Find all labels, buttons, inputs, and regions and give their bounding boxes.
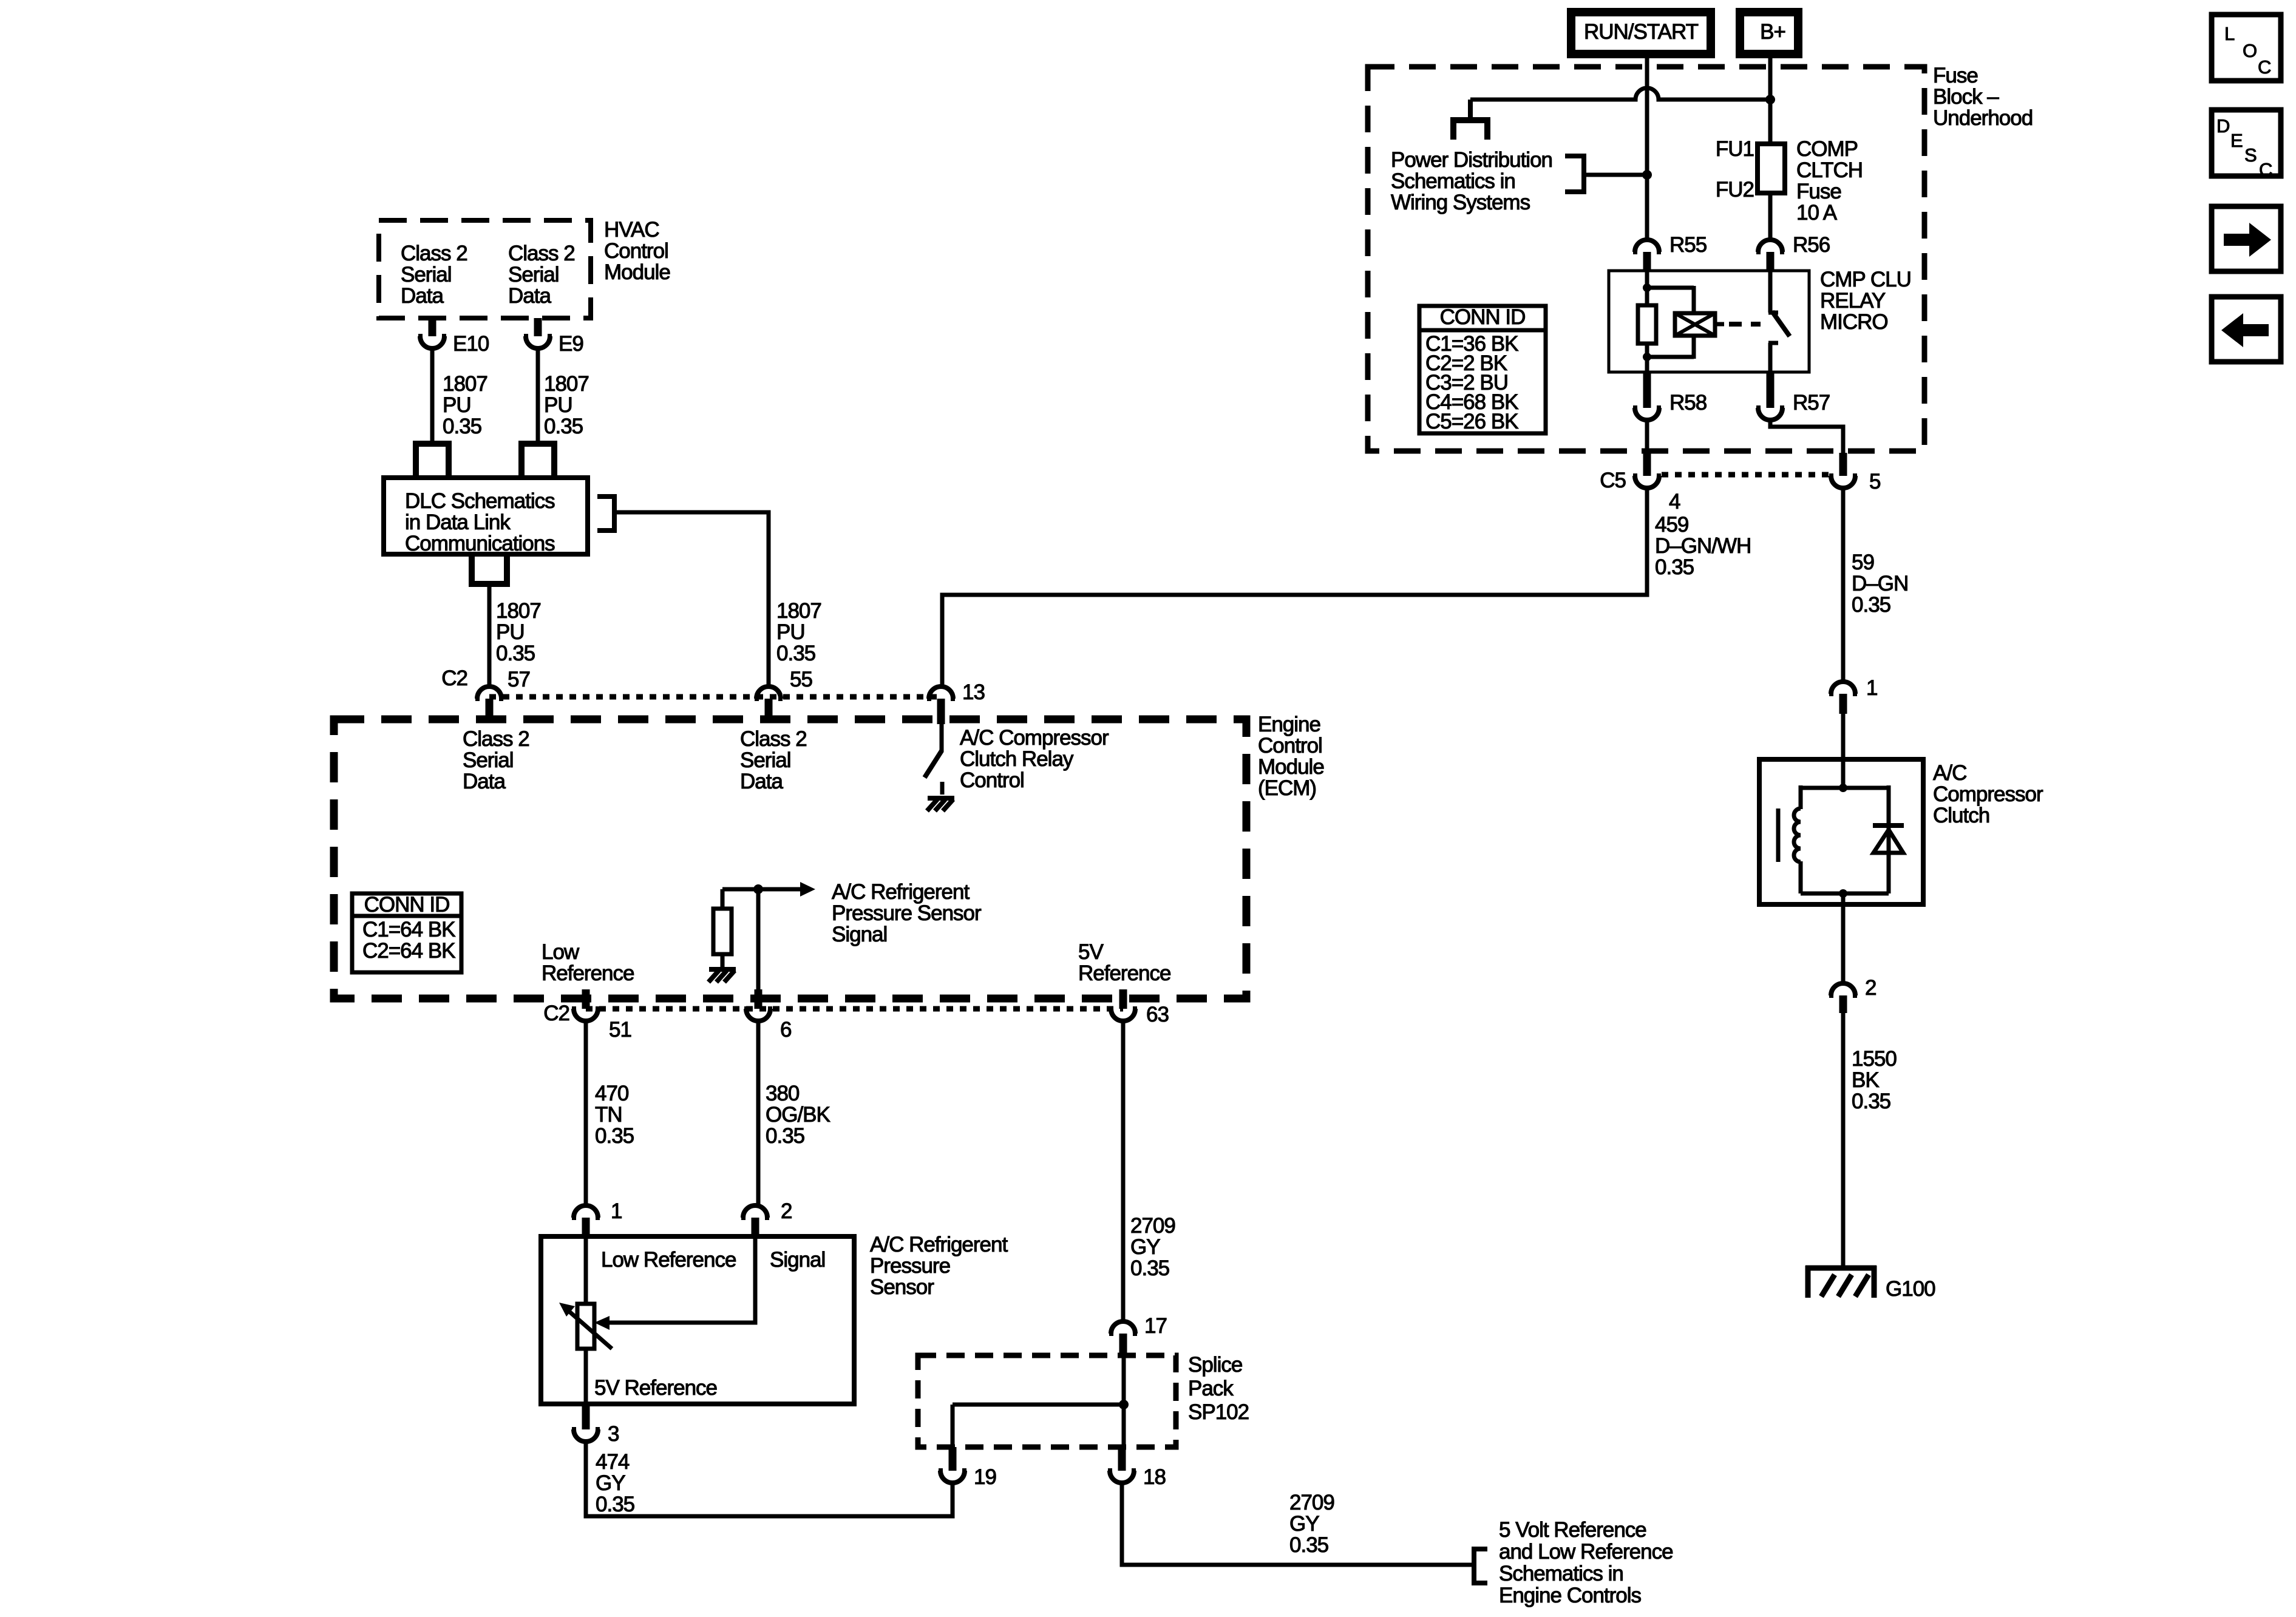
svg-text:Control: Control (1258, 734, 1322, 758)
junction dot at B+ wire (1765, 95, 1775, 104)
label Class 2 Serial Data (pin 55) (740, 727, 807, 793)
svg-text:380: 380 (766, 1082, 800, 1105)
svg-text:Data: Data (463, 770, 506, 793)
A/C compressor clutch box (1759, 759, 1923, 904)
svg-text:Control: Control (960, 768, 1024, 792)
label pin 13 (962, 680, 985, 704)
svg-text:FU2: FU2 (1716, 178, 1754, 202)
ECM pullup resistor (713, 889, 732, 969)
svg-text:CONN ID: CONN ID (364, 893, 450, 917)
legend box back-arrow (2212, 297, 2281, 362)
wire pin 1 to clutch box (1841, 714, 1846, 788)
label 459 D-GN/WH 0.35 (1655, 513, 1751, 579)
svg-text:2709: 2709 (1130, 1214, 1175, 1238)
svg-text:Class 2: Class 2 (740, 727, 807, 751)
svg-text:Pack: Pack (1188, 1377, 1234, 1400)
svg-text:Control: Control (604, 239, 668, 263)
wire pin 6 inside ECM (756, 889, 761, 1009)
connector pin 63 (1109, 989, 1137, 1021)
wire 474 GY (586, 1442, 953, 1516)
sensor signal wire (594, 1236, 755, 1330)
label A/C Refrigerent Pressure Sensor (870, 1233, 1008, 1299)
label FU1 (1716, 137, 1754, 161)
label Signal (sensor) (770, 1248, 825, 1272)
svg-text:Pressure Sensor: Pressure Sensor (832, 901, 982, 925)
svg-text:Engine: Engine (1258, 713, 1320, 736)
label CONN ID (fuse block) (1419, 305, 1546, 433)
legend box DESC (2212, 110, 2281, 180)
svg-text:0.35: 0.35 (1289, 1533, 1328, 1557)
svg-text:R56: R56 (1793, 233, 1830, 257)
svg-text:TN: TN (595, 1103, 622, 1127)
connector R57 (1756, 372, 1830, 420)
label 5 Volt Reference and Low Reference Schematics in Engine Controls (1499, 1518, 1673, 1607)
splice pack dashed box (918, 1355, 1176, 1447)
relay switch (1768, 271, 1790, 372)
label C2 (lower row) (543, 1002, 569, 1025)
DLC Schematics box (384, 478, 588, 554)
svg-text:3: 3 (608, 1422, 619, 1446)
connector sensor pin 2 (741, 1199, 792, 1236)
ECM driver switch (925, 724, 942, 778)
wire 470 TN (584, 1021, 588, 1205)
svg-text:Block –: Block – (1933, 85, 1999, 109)
connector pin 17 (1109, 1314, 1167, 1355)
svg-text:0.35: 0.35 (776, 642, 815, 665)
ground (ECM driver) (927, 798, 954, 811)
relay coil parallel wires (1647, 286, 1694, 359)
label Low Reference (ECM) (542, 940, 634, 985)
ground G100 (1805, 1266, 1877, 1298)
ECM driver switch lower contact (940, 782, 945, 795)
svg-text:Underhood: Underhood (1933, 106, 2033, 130)
connector sensor pin 3 (572, 1404, 619, 1446)
svg-text:PU: PU (544, 393, 572, 417)
wire Power Distribution to RUN/START (1584, 173, 1647, 177)
svg-text:RELAY: RELAY (1820, 289, 1886, 313)
label 5V Reference (sensor) (594, 1376, 717, 1400)
junction dot on RUN/START wire (1642, 170, 1652, 180)
svg-text:C: C (2259, 159, 2272, 180)
svg-text:SP102: SP102 (1188, 1400, 1249, 1424)
svg-text:GY: GY (1130, 1235, 1160, 1259)
svg-text:Fuse: Fuse (1933, 64, 1978, 87)
svg-text:Reference: Reference (542, 961, 634, 985)
svg-text:0.35: 0.35 (766, 1124, 804, 1148)
label Engine Control Module (ECM) (1258, 713, 1324, 800)
relay resistor (1638, 305, 1656, 344)
wire 1550 BK (1841, 1013, 1846, 1266)
svg-text:0.35: 0.35 (1130, 1256, 1169, 1280)
svg-text:RUN/START: RUN/START (1584, 20, 1699, 44)
junction dot clutch bottom (1839, 889, 1847, 898)
label 1807 PU 0.35 (E9 wire) (544, 372, 589, 438)
svg-text:D: D (2216, 115, 2229, 137)
svg-text:A/C Compressor: A/C Compressor (960, 726, 1109, 750)
svg-text:PU: PU (776, 620, 805, 644)
svg-text:and Low Reference: and Low Reference (1499, 1540, 1673, 1564)
svg-text:D–GN/WH: D–GN/WH (1655, 534, 1751, 558)
svg-text:S: S (2244, 144, 2257, 166)
connector pin 18 (1108, 1447, 1166, 1489)
svg-text:Signal: Signal (832, 923, 887, 946)
wire DLC to pin 55 (614, 512, 769, 686)
svg-text:R55: R55 (1669, 233, 1707, 257)
connector E10 (418, 318, 489, 356)
DLC entry staple left (416, 444, 449, 478)
ground (ECM pullup) (708, 969, 736, 982)
svg-text:GY: GY (1289, 1512, 1319, 1536)
svg-text:0.35: 0.35 (496, 642, 535, 665)
svg-text:Data: Data (508, 284, 551, 308)
svg-text:2: 2 (1865, 976, 1876, 1000)
junction dot clutch top (1839, 784, 1847, 792)
svg-text:1807: 1807 (443, 372, 487, 396)
wire 380 OG/BK (756, 1021, 761, 1205)
svg-text:Class 2: Class 2 (508, 242, 575, 265)
svg-text:E10: E10 (453, 332, 489, 356)
power feed box RUN/START (1571, 12, 1711, 54)
label 2709 GY 0.35 (upper) (1130, 1214, 1175, 1280)
bracket to Engine Controls (1474, 1549, 1487, 1583)
svg-text:PU: PU (443, 393, 471, 417)
wire R58 to C5 (1645, 420, 1649, 452)
connector E9 (524, 318, 583, 356)
label Class 2 Serial Data (E9) (508, 242, 575, 308)
svg-text:1807: 1807 (496, 599, 541, 623)
connector pin 51 (572, 989, 600, 1021)
wire RUN/START vertical (1645, 54, 1649, 238)
svg-text:Low Reference: Low Reference (601, 1248, 736, 1272)
relay CMP CLU RELAY MICRO box (1609, 271, 1809, 372)
svg-text:OG/BK: OG/BK (766, 1103, 830, 1127)
connector pin 55 (755, 686, 783, 720)
svg-text:A/C Refrigerent: A/C Refrigerent (870, 1233, 1008, 1256)
wire 2709 GY lower (1122, 1483, 1474, 1565)
svg-text:A/C: A/C (1933, 761, 1966, 785)
clutch plate bar (1776, 808, 1781, 862)
relay coil box-X (1675, 313, 1715, 336)
svg-text:63: 63 (1146, 1003, 1169, 1026)
label Splice Pack SP102 (1188, 1353, 1249, 1424)
svg-text:Module: Module (1258, 755, 1324, 779)
label A/C Refrigerent Pressure Sensor Signal (832, 880, 982, 946)
clutch diode (1873, 825, 1904, 853)
svg-text:57: 57 (508, 668, 530, 691)
legend box next-arrow (2212, 206, 2281, 271)
svg-text:GY: GY (596, 1471, 625, 1495)
svg-text:A/C Refrigerent: A/C Refrigerent (832, 880, 970, 904)
svg-text:0.35: 0.35 (596, 1493, 634, 1516)
wire 59 D-GN (1841, 488, 1846, 682)
label 1807 PU 0.35 (pin 55 wire) (776, 599, 821, 665)
svg-text:G100: G100 (1886, 1277, 1935, 1301)
svg-text:O: O (2243, 40, 2257, 61)
svg-text:1: 1 (1866, 676, 1877, 700)
svg-text:Class 2: Class 2 (401, 242, 467, 265)
label 59 D-GN 0.35 (1852, 551, 1908, 617)
svg-text:51: 51 (609, 1018, 631, 1042)
svg-text:6: 6 (780, 1018, 791, 1042)
svg-text:Signal: Signal (770, 1248, 825, 1272)
connector pin 5 (1829, 453, 1857, 488)
label Low Reference (sensor) (601, 1248, 736, 1272)
staple to Power Distribution (top) (1453, 100, 1487, 140)
label pin 63 (1146, 1003, 1169, 1026)
svg-text:13: 13 (962, 680, 985, 704)
svg-text:459: 459 (1655, 513, 1688, 537)
svg-text:C2: C2 (543, 1002, 569, 1025)
svg-text:CMP CLU: CMP CLU (1820, 268, 1911, 291)
svg-text:0.35: 0.35 (1852, 1090, 1890, 1113)
ECM dashed boundary (334, 719, 1246, 998)
label pin 55 (790, 668, 812, 691)
label A/C Compressor Clutch (1933, 761, 2043, 827)
label Power Distribution Schematics in Wiring Systems (1391, 148, 1552, 214)
wire fuse-block top horizontal with hop (1470, 88, 1770, 100)
svg-text:55: 55 (790, 668, 812, 691)
relay coil branch wire upper (1645, 271, 1649, 305)
inline connector dotted line C2 lower (586, 1006, 1123, 1012)
svg-text:1550: 1550 (1852, 1047, 1897, 1071)
svg-text:2709: 2709 (1289, 1491, 1334, 1514)
svg-text:D–GN: D–GN (1852, 572, 1908, 595)
connector pin 57 (475, 686, 503, 720)
svg-text:1807: 1807 (544, 372, 589, 396)
svg-text:DLC Schematics: DLC Schematics (405, 489, 555, 513)
svg-text:4: 4 (1669, 490, 1680, 514)
svg-text:0.35: 0.35 (1655, 555, 1694, 579)
svg-text:0.35: 0.35 (595, 1124, 634, 1148)
junction dot relay top (1643, 283, 1651, 292)
splice internal wires (953, 1355, 1124, 1447)
svg-text:BK: BK (1852, 1068, 1879, 1092)
bracket right of Power Distribution text (1565, 156, 1584, 192)
junction dot pullup (753, 884, 763, 894)
svg-text:1: 1 (611, 1199, 622, 1223)
svg-text:C2=64 BK: C2=64 BK (362, 939, 455, 963)
svg-text:R58: R58 (1669, 391, 1707, 415)
svg-text:Serial: Serial (508, 263, 559, 286)
svg-text:Low: Low (542, 940, 580, 964)
label 470 TN 0.35 (595, 1082, 634, 1148)
svg-text:MICRO: MICRO (1820, 310, 1888, 334)
svg-text:E9: E9 (559, 332, 583, 356)
svg-text:Schematics in: Schematics in (1391, 169, 1515, 193)
junction dot SP102 (1119, 1400, 1129, 1409)
svg-text:Clutch Relay: Clutch Relay (960, 747, 1074, 771)
svg-text:Communications: Communications (405, 532, 555, 555)
label DLC Schematics in Data Link Communications (405, 489, 555, 555)
connector pin 6 (744, 989, 772, 1021)
svg-text:Clutch: Clutch (1933, 804, 1989, 827)
svg-text:474: 474 (596, 1450, 630, 1474)
label 1550 BK 0.35 (1852, 1047, 1897, 1113)
svg-text:5V: 5V (1078, 940, 1104, 964)
svg-text:C: C (2258, 56, 2271, 78)
connector pin 13 (927, 686, 955, 724)
label COMP CLTCH Fuse 10 A (1796, 137, 1863, 225)
svg-text:0.35: 0.35 (1852, 593, 1890, 617)
label C5 (1600, 469, 1626, 492)
label Fuse Block - Underhood (1933, 64, 2033, 130)
svg-text:5 Volt Reference: 5 Volt Reference (1499, 1518, 1646, 1542)
fuse FU1/FU2 COMP CLTCH (1758, 144, 1785, 238)
label pin 5 (1869, 470, 1880, 493)
connector R56 (1756, 233, 1830, 271)
DLC right bracket (597, 497, 614, 531)
svg-text:FU1: FU1 (1716, 137, 1754, 161)
inline connector dotted line C5 (1662, 472, 1829, 478)
svg-text:5: 5 (1869, 470, 1880, 493)
relay coil actuator lead (1715, 322, 1724, 327)
label G100 (1886, 1277, 1935, 1301)
svg-text:Pressure: Pressure (870, 1254, 950, 1278)
DLC exit staple (472, 554, 507, 584)
svg-text:CONN ID: CONN ID (1440, 305, 1526, 329)
ECM 5V pullup feed arrow (722, 882, 815, 897)
label pin 4 (1669, 490, 1680, 514)
svg-text:Serial: Serial (463, 748, 513, 772)
connector pin 19 (939, 1447, 996, 1489)
wire E10 to DLC (430, 348, 435, 441)
pressure sensor box (541, 1236, 854, 1404)
svg-text:Class 2: Class 2 (463, 727, 529, 751)
label FU2 (1716, 178, 1754, 202)
label Class 2 Serial Data (E10) (401, 242, 467, 308)
svg-text:Schematics in: Schematics in (1499, 1562, 1623, 1585)
svg-text:0.35: 0.35 (443, 415, 481, 438)
svg-text:L: L (2224, 23, 2235, 44)
svg-text:Power Distribution: Power Distribution (1391, 148, 1552, 172)
svg-text:0.35: 0.35 (544, 415, 583, 438)
svg-text:Serial: Serial (401, 263, 451, 286)
svg-text:Sensor: Sensor (870, 1275, 934, 1299)
DLC entry staple right (521, 444, 554, 478)
relay coil branch wire lower (1645, 344, 1649, 372)
junction dot relay bottom (1643, 353, 1651, 361)
clutch inner loop (1801, 785, 1889, 893)
connector R55 (1633, 233, 1707, 271)
label CONN ID (ECM) (352, 893, 461, 972)
svg-text:18: 18 (1143, 1465, 1166, 1489)
svg-text:Engine Controls: Engine Controls (1499, 1584, 1642, 1607)
label pin 51 (609, 1018, 631, 1042)
svg-text:HVAC: HVAC (604, 218, 659, 242)
wire E9 to DLC (536, 348, 540, 441)
wire 459 D-GN/WH (942, 488, 1647, 686)
svg-text:C1=64 BK: C1=64 BK (362, 918, 455, 941)
fuse block dashed boundary (1368, 67, 1924, 451)
svg-text:Reference: Reference (1078, 961, 1170, 985)
svg-text:Fuse: Fuse (1796, 180, 1841, 203)
svg-text:Splice: Splice (1188, 1353, 1242, 1377)
label 2709 GY 0.35 (lower) (1289, 1491, 1334, 1557)
wire DLC to pin 57 (487, 584, 492, 686)
label 1807 PU 0.35 (pin 57 wire) (496, 599, 541, 665)
svg-text:E: E (2230, 130, 2243, 151)
svg-text:in Data Link: in Data Link (405, 510, 511, 534)
connector R58 (1633, 372, 1707, 420)
connector clutch pin 1 (1829, 676, 1877, 714)
svg-text:Module: Module (604, 260, 670, 284)
svg-text:Data: Data (740, 770, 783, 793)
label 1807 PU 0.35 (E10 wire) (443, 372, 487, 438)
svg-text:C5: C5 (1600, 469, 1626, 492)
svg-text:PU: PU (496, 620, 525, 644)
svg-text:Serial: Serial (740, 748, 790, 772)
svg-text:1807: 1807 (776, 599, 821, 623)
HVAC control module dashed box (379, 220, 591, 318)
label 380 OG/BK 0.35 (766, 1082, 830, 1148)
label CMP CLU RELAY MICRO (1820, 268, 1911, 334)
svg-text:C5=26 BK: C5=26 BK (1425, 410, 1518, 433)
label pin 6 (780, 1018, 791, 1042)
svg-text:Compressor: Compressor (1933, 782, 2043, 806)
svg-text:10 A: 10 A (1796, 201, 1838, 225)
wire 2709 GY upper (1121, 1021, 1126, 1321)
svg-text:19: 19 (974, 1465, 996, 1489)
connector sensor pin 1 (572, 1199, 622, 1236)
svg-text:R57: R57 (1793, 391, 1830, 415)
label 474 GY 0.35 (596, 1450, 634, 1516)
connector C5 pin 4 (1633, 452, 1661, 488)
svg-text:17: 17 (1144, 1314, 1167, 1338)
clutch coil bumps (1794, 808, 1801, 862)
svg-text:Data: Data (401, 284, 444, 308)
wire R57 jog to pin 5 (1770, 420, 1843, 453)
legend box LOC (2212, 15, 2281, 81)
wire B+ vertical upper (1768, 54, 1773, 144)
power feed box B+ (1740, 12, 1798, 54)
label HVAC Control Module (604, 218, 670, 284)
svg-text:Wiring Systems: Wiring Systems (1391, 191, 1530, 214)
label C2 (upper row) (441, 666, 467, 690)
inline connector dotted line C2 upper (489, 694, 941, 700)
label Class 2 Serial Data (pin 57) (463, 727, 529, 793)
label pin 57 (508, 668, 530, 691)
svg-text:2: 2 (781, 1199, 792, 1223)
relay actuator dashed link (1729, 322, 1761, 327)
svg-text:59: 59 (1852, 551, 1874, 574)
sensor potentiometer (559, 1236, 612, 1404)
svg-text:COMP: COMP (1796, 137, 1858, 161)
connector clutch pin 2 (1829, 976, 1876, 1013)
svg-text:470: 470 (595, 1082, 629, 1105)
label 5V Reference (ECM) (1078, 940, 1170, 985)
wire clutch box to pin 2 (1841, 893, 1846, 983)
svg-text:B+: B+ (1760, 20, 1785, 44)
svg-text:(ECM): (ECM) (1258, 776, 1316, 800)
svg-text:5V Reference: 5V Reference (594, 1376, 717, 1400)
svg-text:CLTCH: CLTCH (1796, 158, 1863, 182)
svg-text:C2: C2 (441, 666, 467, 690)
label A/C Compressor Clutch Relay Control (960, 726, 1109, 792)
